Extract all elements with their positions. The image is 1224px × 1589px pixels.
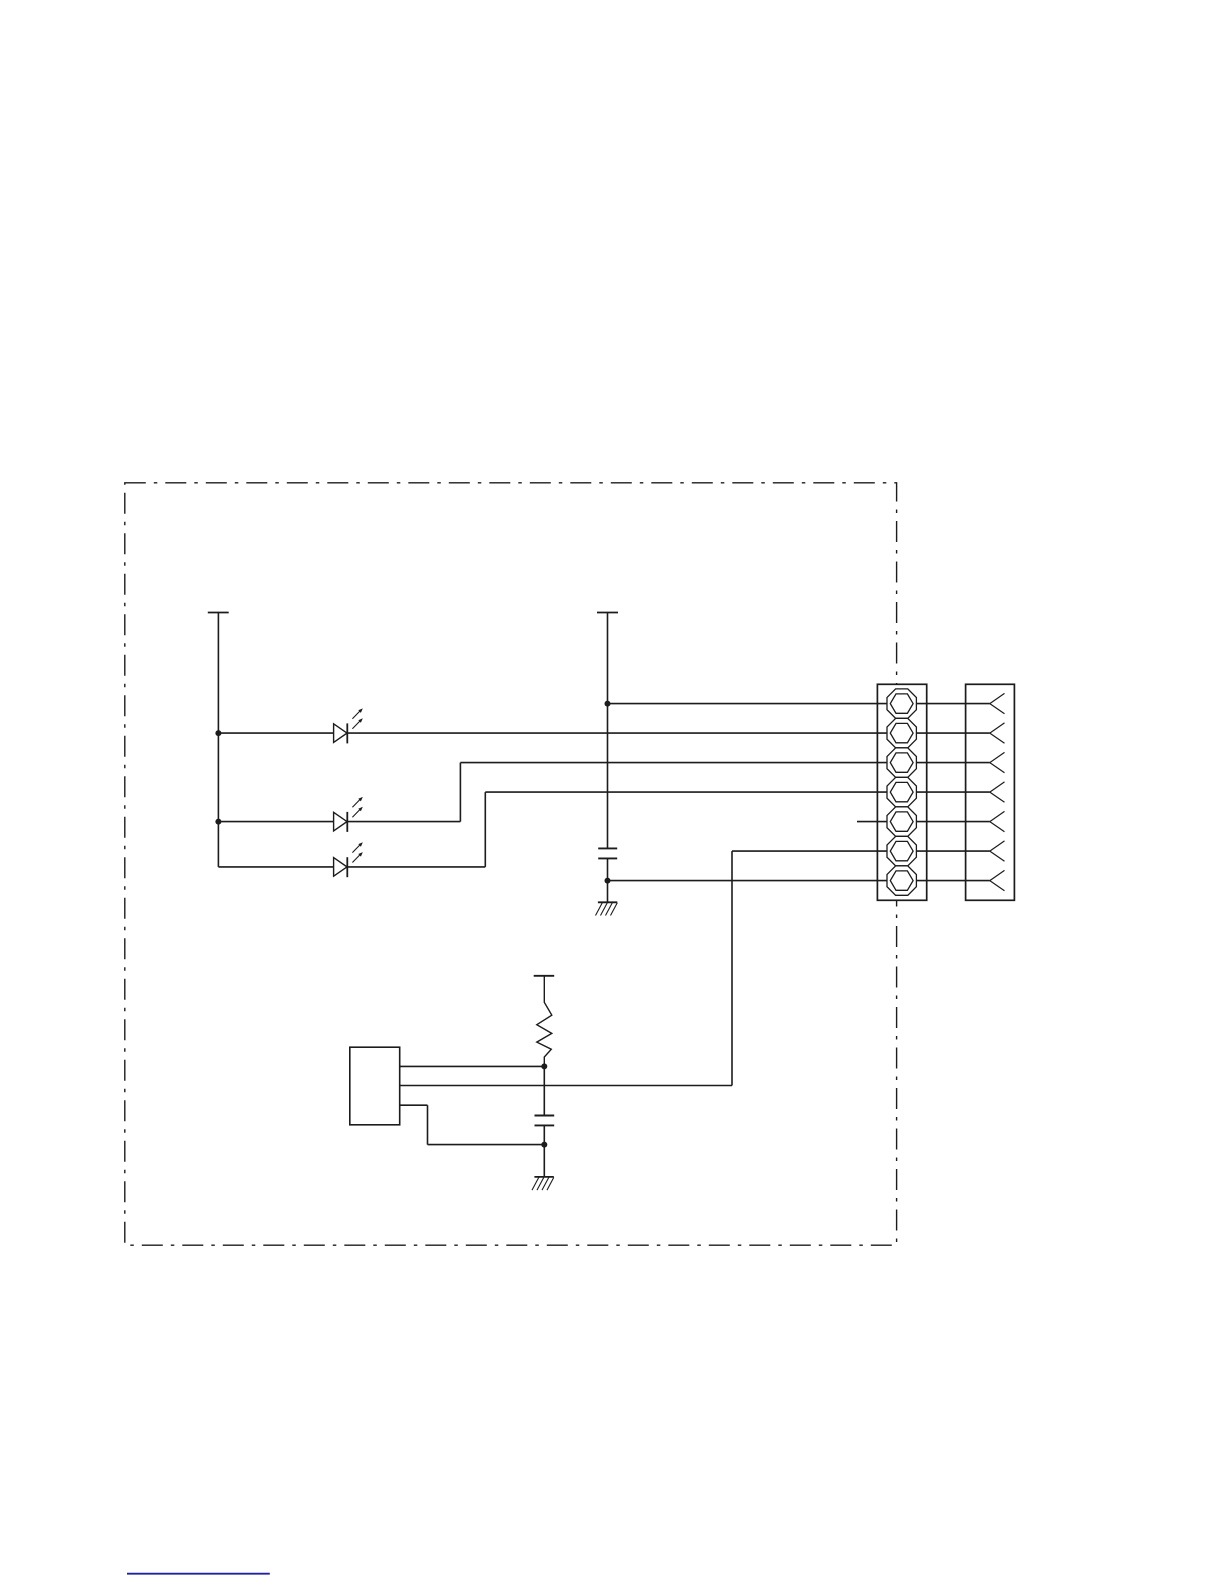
LED D2 [334,797,363,832]
wire: stub at connector pin 5 [857,821,990,823]
connector CN1 receptacle contact 4 [990,782,1005,802]
connector CN1 receptacle contact 2 [990,723,1005,743]
wire: U1 bottom pin step right [400,1104,428,1106]
wire: net to connector pin 1 [608,703,990,705]
wire: U1 bottom pin step down [427,1105,429,1144]
connector CN1 pin 7 [887,866,916,895]
connector CN1 pin 1 [887,689,916,718]
connector CN1 pin 3 [887,748,916,777]
junction: C1 / pin 7 net [605,878,611,884]
ground (C2 ground) [532,1177,554,1190]
connector CN1 receptacle contact 5 [990,811,1005,831]
wire: LED D3 anode wire [218,866,333,868]
power rail bar (middle supply) [597,612,618,614]
footer rule (blue) [127,1573,270,1575]
wire: LED D2 anode wire [218,821,333,823]
connector CN1 receptacle contact 3 [990,752,1005,772]
wire: U1 bottom pin to ground node [428,1144,545,1146]
connector CN1 mating half (receptacle side) [966,684,1015,900]
wire: horizontal from sensor U1 output to pin-6 net [400,1085,732,1087]
wire: ground net to connector pin 7 [608,880,990,882]
wire: connector pin 6 horizontal [732,850,990,852]
wire: ground node down to ground symbol [543,1145,545,1177]
junction: rail A / D2 [215,819,221,825]
wire: net to connector pin 3 horizontal [460,762,989,764]
LED D1 [334,708,363,743]
junction: C2 ground node [541,1142,547,1148]
connector CN1 pin 4 [887,777,916,806]
sensor/resonator U1 (box) [350,1047,400,1125]
connector CN1 pin 6 [887,836,916,865]
resistor R1 (pull-up) [537,976,552,1067]
dash-dot enclosure border (dashed outline box) [125,483,897,1245]
power rail bar (left supply) [208,612,229,614]
wire: LED D1 anode wire [218,732,333,734]
wire: capacitor C2 bottom plate to ground node [543,1125,545,1144]
junction: rail A / D1 [215,730,221,736]
wire: vertical from LED D3 row up to pin-4 net [484,792,486,867]
wire: net to connector pin 4 horizontal [485,791,990,793]
LED D3 [334,842,363,877]
wire: node to capacitor C2 top plate [543,1066,545,1115]
connector CN1 receptacle contact 7 [990,870,1005,890]
wire: middle supply rail vertical down to capacitor [607,613,609,849]
connector CN1 pin 2 [887,718,916,747]
capacitor C2 [535,1116,555,1126]
wire: U1 top pin to node R1/C2 [400,1065,545,1067]
ground (capacitor C1 ground) [596,902,618,915]
wire: LED D3 cathode wire [347,866,485,868]
power rail bar (lower supply) [534,975,555,977]
junction: R1 / C2 / U1 node [541,1063,547,1069]
wire: left supply rail vertical [217,613,219,867]
connector CN1 housing (pin side) [877,684,926,900]
connector CN1 receptacle contact 6 [990,841,1005,861]
capacitor C1 [598,848,617,858]
wire: vertical from LED D2 row up to pin-3 net [459,763,461,822]
wire: capacitor C1 bottom lead to ground [607,858,609,902]
connector CN1 receptacle contact 1 [990,693,1005,713]
wire: LED D2 cathode wire [347,821,460,823]
wire: vertical from pin-6 net down to sensor U1 [731,851,733,1085]
connector CN1 pin 5 [887,807,916,836]
wire: LED D1 cathode wire to connector pin 2 [347,732,990,734]
junction: rail B / pin 1 net [605,701,611,707]
